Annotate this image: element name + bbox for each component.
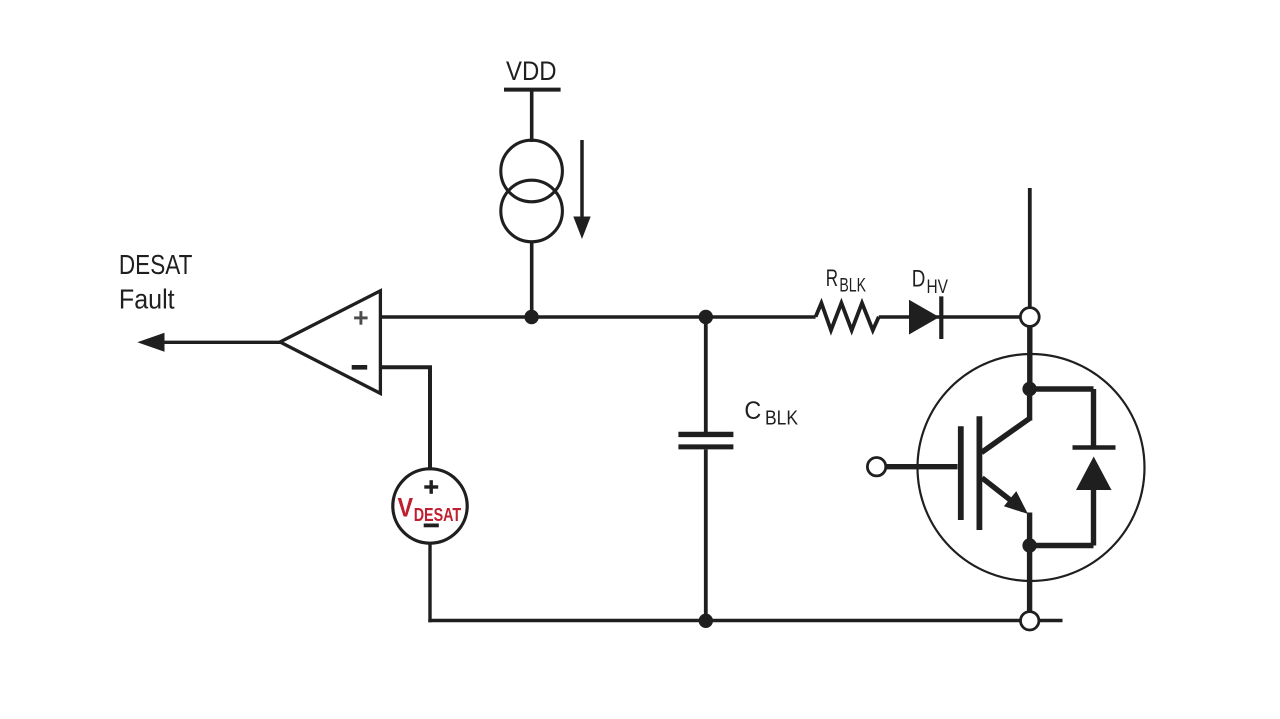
wire inverting input to VDESAT [380, 367, 430, 470]
label DESAT Fault [119, 249, 192, 315]
wire VDD to current source [530, 90, 534, 142]
wire bottom horizontal net [428, 619, 1020, 622]
wire capacitor to bottom net [704, 450, 708, 621]
collector stub [1027, 389, 1032, 421]
power label VDD [504, 56, 561, 90]
gate terminal circle [867, 458, 885, 476]
freewheel diode D2 [1030, 389, 1116, 546]
wire current source to node A [530, 242, 534, 318]
wire collector top vertical [1028, 188, 1032, 308]
label DHV [912, 266, 948, 298]
node C junction dot [699, 614, 713, 628]
collector junction dot [1022, 382, 1036, 396]
svg-text:VDD: VDD [506, 56, 557, 86]
collector diagonal [982, 418, 1031, 453]
emitter stub [1027, 513, 1032, 546]
IGBT module outer circle [918, 354, 1145, 581]
wire VDESAT to bottom net [428, 543, 431, 622]
node A junction dot [524, 310, 538, 324]
wire resistor to terminal [879, 315, 1021, 318]
resistor RBLK [816, 303, 879, 330]
wire gate [886, 464, 958, 469]
wire T2 right stub [1039, 619, 1063, 622]
svg-text:R: R [826, 265, 838, 292]
wire main horizontal net left [381, 315, 816, 318]
svg-text:DESAT: DESAT [119, 249, 192, 280]
node B junction dot [699, 310, 713, 324]
svg-text:BLK: BLK [765, 408, 799, 430]
gate bar left [958, 426, 964, 520]
terminal T1 collector [1020, 308, 1039, 327]
voltage source VDESAT [393, 469, 467, 543]
wire node B to capacitor [704, 317, 708, 432]
wire T1 to IGBT [1027, 326, 1032, 389]
current direction arrow [573, 140, 590, 239]
label CBLK [744, 397, 798, 430]
svg-text:Fault: Fault [119, 284, 175, 315]
svg-text:BLK: BLK [839, 276, 866, 297]
emitter arrowhead [1004, 491, 1028, 514]
emitter diagonal [982, 478, 1023, 510]
gate bar right [977, 416, 983, 530]
terminal T2 emitter [1020, 612, 1038, 630]
DESAT Fault output arrow [137, 333, 281, 352]
svg-text:DESAT: DESAT [414, 504, 462, 525]
emitter junction dot [1022, 538, 1036, 552]
diode DHV [909, 296, 941, 339]
op-amp U1 [280, 291, 380, 394]
svg-text:V: V [398, 492, 414, 522]
svg-text:C: C [744, 397, 761, 425]
current source I1 [501, 140, 563, 242]
wire emitter to T2 [1027, 546, 1032, 612]
svg-text:HV: HV [927, 277, 949, 298]
label RBLK [826, 265, 866, 297]
IGBT Q1 [961, 382, 1037, 553]
svg-text:D: D [912, 266, 926, 293]
capacitor CBLK [678, 434, 733, 447]
